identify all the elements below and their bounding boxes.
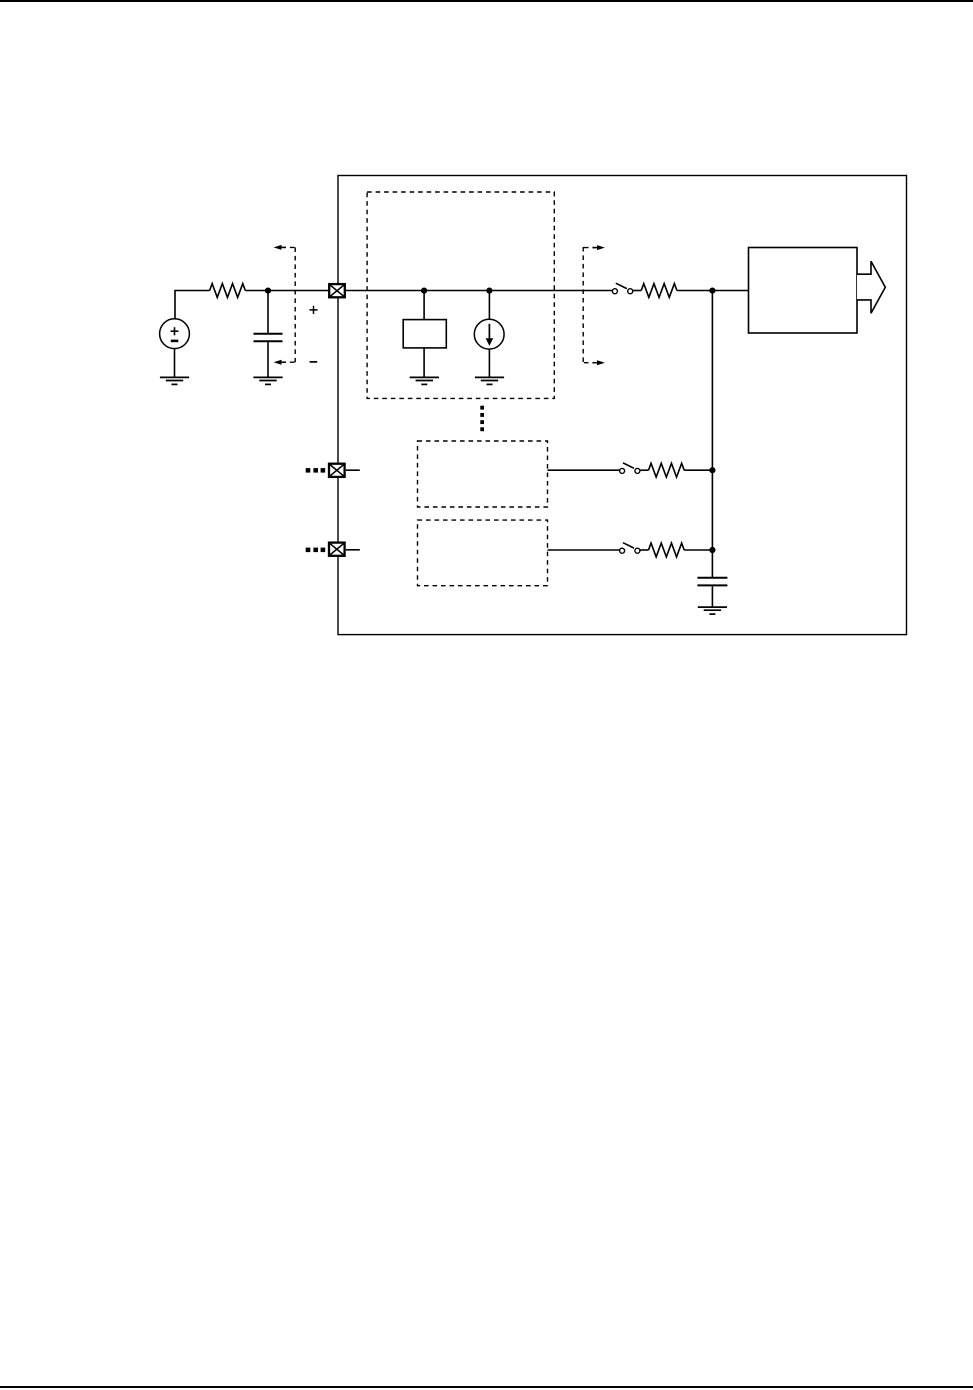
ellipsis dots (more pins) [306,468,326,473]
wire V1 bottom to ground [174,349,176,378]
ellipsis dots (more channels) [480,406,484,431]
resistor R source [210,284,246,298]
resistor R1 [649,463,685,477]
node D junction [709,288,715,294]
ground [253,377,282,384]
voltage source V1 [160,319,190,349]
wire capacitor to ground [267,342,269,377]
wire S1 to resistor R1 [640,469,649,471]
node E junction [709,467,715,473]
ADC core block [749,248,858,334]
sampled voltage annotation bracket (right, arrows right) [583,245,605,365]
switch S0 [612,283,632,294]
internal block (rect) [403,320,446,348]
wire V1 top to resistor [175,291,210,319]
node C junction [486,288,492,294]
wire resistor to node A [245,290,328,292]
wire switch to resistor R0 [633,290,642,292]
current source I leak [474,319,504,349]
output bus arrow [857,261,885,313]
wire pin AINx stub [346,469,360,471]
dashed box channel 2 [418,520,548,586]
wire node A to capacitor [267,291,269,333]
dashed box channel 1 [418,441,548,507]
switch S1 [620,463,640,474]
wire block to ground [423,348,425,377]
resistor R2 [649,543,685,557]
switch S2 [620,543,640,554]
wire pin1 to channel box [346,290,612,292]
wire channel1 to switch S1 [548,469,620,471]
wire node C to current source [488,291,490,320]
input voltage annotation bracket (left, arrows left) [274,245,296,365]
wire pin AINy stub [346,549,360,551]
wire sampling bus vertical [711,291,713,577]
node B junction [421,288,427,294]
ground [160,377,189,384]
pin AINy [329,543,345,556]
wire R0 to node D [677,290,749,292]
wire node B to block [423,291,425,320]
ground [698,607,727,614]
plus label [309,306,317,314]
wire S2 to resistor R2 [640,549,649,551]
chip boundary box [338,176,907,635]
pin AINx [329,464,345,477]
wire channel2 to switch S2 [548,549,620,551]
ground [410,377,439,384]
minus label [310,361,318,363]
ellipsis dots (more pins) [306,548,326,553]
resistor R0 [641,284,677,298]
dashed box channel 0 [367,192,554,398]
pin AIN0 [329,284,345,297]
capacitor C source [254,334,283,342]
wire R1 to bus [684,469,712,471]
wire R2 to bus [684,549,712,551]
node A junction [265,288,271,294]
ground [475,377,504,384]
node F junction [709,547,715,553]
wire current source to ground [488,349,490,377]
sampling capacitor C sample [697,578,727,586]
wire capacitor to ground [711,586,713,607]
